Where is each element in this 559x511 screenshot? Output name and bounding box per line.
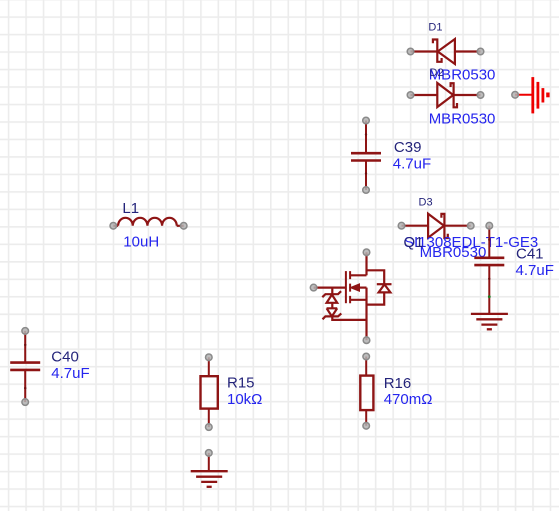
bottom stub: [350, 299, 366, 301]
middle link: [331, 303, 333, 309]
svg-text:470mΩ: 470mΩ: [384, 391, 433, 408]
svg-text:C41: C41: [516, 245, 544, 262]
transistor Q1 (N-MOSFET with body diode and gate zeners): [314, 252, 392, 340]
gate protection zeners: [322, 288, 366, 320]
pin L1.2: [180, 223, 187, 230]
pin R16.2: [363, 423, 370, 430]
wire body diode bottom to source: [367, 292, 385, 304]
svg-text:10kΩ: 10kΩ: [227, 391, 262, 408]
pin D3.2: [467, 222, 474, 229]
arrow on source stub (filled): [350, 284, 359, 291]
resistor R15: [201, 357, 218, 427]
zener Z1 bar (cathode up): [322, 291, 341, 297]
link to source: [332, 316, 366, 320]
pin Q1.source: [363, 337, 370, 344]
channel dashes: [349, 271, 351, 303]
drain stub: [350, 274, 366, 276]
svg-text:C39: C39: [394, 139, 422, 156]
zener Z2 bar (cathode down): [323, 313, 342, 319]
pin R15.1: [206, 354, 213, 361]
svg-text:4.7uF: 4.7uF: [51, 365, 89, 382]
pin D1.2: [477, 48, 484, 55]
pin dots: [22, 48, 518, 456]
pin R15.2: [206, 424, 213, 431]
capacitor C41: [474, 226, 504, 314]
zener Z1 triangle: [327, 295, 338, 303]
ground (below R15): [191, 453, 228, 487]
pin Q1.drain: [363, 249, 370, 256]
power port (bright red, bar-style): [515, 77, 548, 113]
svg-text:R15: R15: [227, 374, 255, 391]
body diode (cathode bar + triangle): [377, 283, 392, 285]
resistor R16: [360, 357, 373, 426]
node marker (green dot on C41 net): [488, 295, 491, 298]
pin C40.2: [22, 399, 29, 406]
source vertical wire: [365, 288, 367, 341]
inductor L1: [113, 218, 183, 226]
svg-text:C40: C40: [51, 349, 79, 366]
capacitor C40: [10, 331, 40, 402]
pin D3.1: [398, 222, 405, 229]
svg-text:L1: L1: [122, 200, 139, 217]
source stub with arrow: [359, 287, 367, 289]
pin power: [512, 92, 519, 99]
svg-text:4.7uF: 4.7uF: [393, 156, 431, 173]
pin Q1.gate: [310, 284, 317, 291]
svg-text:D2: D2: [430, 67, 444, 79]
svg-text:4.7uF: 4.7uF: [516, 262, 554, 279]
zener Z2 triangle: [327, 308, 338, 316]
pin C41.1: [486, 222, 493, 229]
diode D2: [411, 83, 481, 107]
svg-text:D1: D1: [428, 22, 442, 34]
branch from gate wire: [331, 288, 333, 295]
ground (below C41): [471, 314, 508, 329]
svg-text:R16: R16: [384, 375, 412, 392]
pin C39.1: [363, 117, 370, 124]
pin D2.1: [407, 92, 414, 99]
pin L1.1: [110, 223, 117, 230]
pin D1.1: [407, 48, 414, 55]
pin C39.2: [363, 187, 370, 194]
svg-text:MBR0530: MBR0530: [429, 110, 496, 127]
diode D1: [411, 39, 481, 64]
pin D2.2: [477, 92, 484, 99]
diode D3: [402, 214, 471, 238]
svg-text:D3: D3: [419, 197, 433, 209]
wire to body diode top: [367, 270, 385, 284]
svg-text:10uH: 10uH: [123, 234, 159, 251]
pin junction dots: [24, 133, 490, 389]
capacitor C39: [351, 121, 381, 191]
gate pin wire: [314, 287, 346, 289]
pin R16.1: [363, 353, 370, 360]
pin C40.1: [22, 328, 29, 335]
gate bar: [345, 271, 347, 303]
pin GND: [206, 450, 213, 457]
drain pin wire: [365, 252, 367, 275]
